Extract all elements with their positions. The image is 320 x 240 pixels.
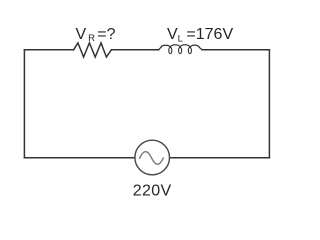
svg-text:VL =176V: VL =176V <box>167 26 233 44</box>
inductor L (V_L) humps <box>161 45 200 48</box>
inductor loop 1 <box>169 47 172 53</box>
AC source circle <box>135 140 170 175</box>
AC source sine wave <box>140 152 164 165</box>
wire: bottom-right segment <box>170 157 270 159</box>
inductor L (V_L) lead-in slant <box>159 47 161 49</box>
wire: top-middle segment <box>111 49 158 51</box>
svg-text:220V: 220V <box>133 183 172 200</box>
wire: top-left segment <box>24 49 73 51</box>
inductor L (V_L) lead-out slant <box>199 47 202 49</box>
inductor loop 3 <box>188 47 191 53</box>
wire: bottom-left segment <box>24 157 134 159</box>
inductor loop 2 <box>179 47 182 53</box>
wire: left side <box>23 50 25 158</box>
wire: right side <box>268 50 270 158</box>
wire: top-right segment <box>202 49 269 51</box>
resistor R (V_R) zigzag <box>74 43 112 57</box>
